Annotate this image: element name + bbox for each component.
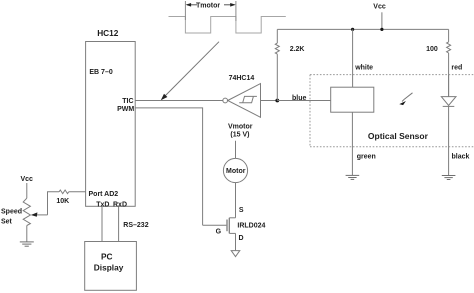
svg-text:G: G bbox=[216, 228, 222, 235]
MCU U1 HC12 bbox=[86, 42, 136, 207]
svg-text:RS–232: RS–232 bbox=[123, 222, 148, 229]
wire motor to source bbox=[235, 183, 237, 218]
wire TxD bbox=[101, 206, 103, 241]
dimension tick left bbox=[184, 1, 186, 20]
svg-text:TIC: TIC bbox=[122, 98, 133, 105]
potentiometer R3 speed set bbox=[23, 198, 30, 225]
PC display box bbox=[85, 242, 137, 291]
svg-text:red: red bbox=[451, 64, 462, 71]
svg-text:Speed: Speed bbox=[1, 208, 22, 215]
light ray arrow bbox=[399, 93, 412, 105]
node junction inverter/2.2K/blue bbox=[275, 99, 279, 103]
wire junction up to resistor bbox=[276, 54, 278, 100]
transistor Q1 IRLD024 bbox=[229, 217, 235, 219]
resistor R2 100 bbox=[448, 29, 450, 42]
ground green bbox=[346, 175, 360, 179]
schmitt hysteresis glyph bbox=[239, 96, 257, 102]
motor M1 bbox=[223, 158, 247, 182]
svg-text:Tmotor: Tmotor bbox=[196, 2, 220, 9]
svg-text:TxD: TxD bbox=[96, 202, 109, 209]
wire PWM route bbox=[135, 108, 202, 225]
wiper arrow bbox=[31, 192, 59, 217]
dimension arrow left bbox=[186, 3, 197, 7]
wire RxD bbox=[118, 206, 120, 241]
svg-text:74HC14: 74HC14 bbox=[229, 75, 255, 82]
svg-text:PWM: PWM bbox=[117, 106, 134, 113]
node white rail junction bbox=[351, 28, 354, 31]
wire TIC to inverter bbox=[135, 100, 223, 102]
svg-text:EB 7–0: EB 7–0 bbox=[89, 69, 112, 76]
op-amp U2 74HC14 inverter bbox=[223, 98, 228, 103]
wire Vmotor to motor bbox=[235, 141, 237, 159]
ground open triangle bbox=[231, 251, 240, 257]
svg-text:S: S bbox=[239, 207, 244, 214]
phototransistor block bbox=[331, 87, 374, 112]
svg-text:Display: Display bbox=[94, 263, 124, 273]
svg-text:IRLD024: IRLD024 bbox=[237, 223, 265, 230]
optical sensor dashed enclosure bbox=[310, 75, 474, 147]
svg-text:Vcc: Vcc bbox=[373, 3, 386, 10]
diode D1 (IR LED) bbox=[448, 75, 450, 97]
svg-text:Vcc: Vcc bbox=[21, 176, 34, 183]
resistor R1 2.2K bbox=[275, 43, 279, 54]
svg-text:HC12: HC12 bbox=[97, 28, 119, 38]
svg-text:D: D bbox=[239, 235, 244, 242]
svg-text:PC: PC bbox=[101, 252, 113, 262]
svg-text:Port AD2: Port AD2 bbox=[89, 191, 119, 198]
ground black bbox=[442, 176, 456, 180]
ground pot bbox=[20, 242, 34, 246]
svg-text:100: 100 bbox=[426, 46, 438, 53]
svg-text:green: green bbox=[357, 154, 376, 161]
svg-text:Vmotor: Vmotor bbox=[228, 124, 253, 131]
svg-text:black: black bbox=[452, 154, 470, 161]
node Vcc rail junction bbox=[380, 28, 383, 31]
dimension arrow right bbox=[224, 3, 236, 7]
svg-text:RxD: RxD bbox=[113, 202, 127, 209]
svg-text:Motor: Motor bbox=[226, 168, 246, 175]
svg-text:10K: 10K bbox=[56, 198, 69, 205]
wire inverter output bbox=[261, 100, 278, 102]
svg-text:2.2K: 2.2K bbox=[290, 46, 305, 53]
resistor R4 10K bbox=[59, 190, 69, 194]
wire blue bbox=[277, 100, 330, 102]
svg-text:blue: blue bbox=[292, 95, 306, 102]
wire white bbox=[352, 29, 354, 87]
waveform Tmotor bbox=[169, 17, 286, 34]
dimension tick right bbox=[235, 1, 237, 21]
svg-text:(15 V): (15 V) bbox=[230, 131, 249, 138]
arrow waveform to TIC bbox=[161, 42, 219, 100]
svg-text:Optical Sensor: Optical Sensor bbox=[368, 131, 429, 141]
svg-text:Set: Set bbox=[1, 218, 13, 225]
wire green bbox=[351, 112, 353, 175]
wire Vcc rail bbox=[277, 28, 448, 30]
svg-text:white: white bbox=[354, 64, 373, 71]
